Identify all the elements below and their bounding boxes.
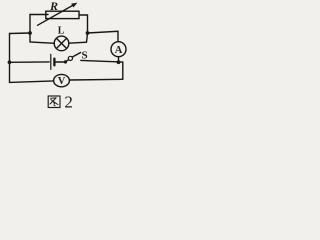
wire battery row left [10, 61, 50, 63]
switch contact circle [68, 56, 72, 60]
lamp L circle [54, 36, 69, 51]
wire ammeter bottom lead [118, 57, 120, 63]
switch link [65, 60, 68, 62]
voltmeter V circle [54, 74, 70, 86]
wire top row to rheostat [30, 14, 48, 16]
svg-text:L: L [58, 26, 65, 37]
node junction dot left-mid [28, 31, 32, 35]
wire lamp right to node [69, 34, 88, 44]
switch lever [72, 53, 80, 58]
caption hanzi tu (drawn) [48, 96, 60, 108]
svg-text:2: 2 [64, 92, 73, 111]
ammeter A circle [111, 42, 126, 57]
svg-text:A: A [115, 45, 123, 56]
lamp cross [56, 38, 66, 48]
battery long plate [50, 54, 52, 69]
wire switch right to corner [81, 60, 123, 79]
wire left horizontal to node [10, 32, 31, 35]
node junction dot under ammeter [117, 60, 121, 64]
resistor R rheostat box [46, 11, 79, 18]
svg-text:S: S [82, 50, 88, 62]
svg-text:R: R [49, 0, 58, 13]
wire vertical up to rheostat row [29, 15, 31, 34]
wire node to ammeter [88, 31, 119, 41]
wire bottom row left of voltmeter [10, 81, 54, 83]
svg-text:V: V [58, 76, 66, 87]
node junction dot on left rail [8, 60, 12, 64]
wire left rail vertical [9, 34, 11, 83]
node junction dot right-mid [86, 31, 90, 35]
battery short plate [53, 59, 55, 66]
wire battery to switch [56, 61, 64, 63]
wire node down to lamp row [30, 33, 54, 43]
wire bottom row right of voltmeter [69, 78, 122, 81]
switch S pivot dot [64, 60, 67, 63]
rheostat arrow [38, 6, 73, 26]
wire from rheostat right [80, 15, 88, 33]
